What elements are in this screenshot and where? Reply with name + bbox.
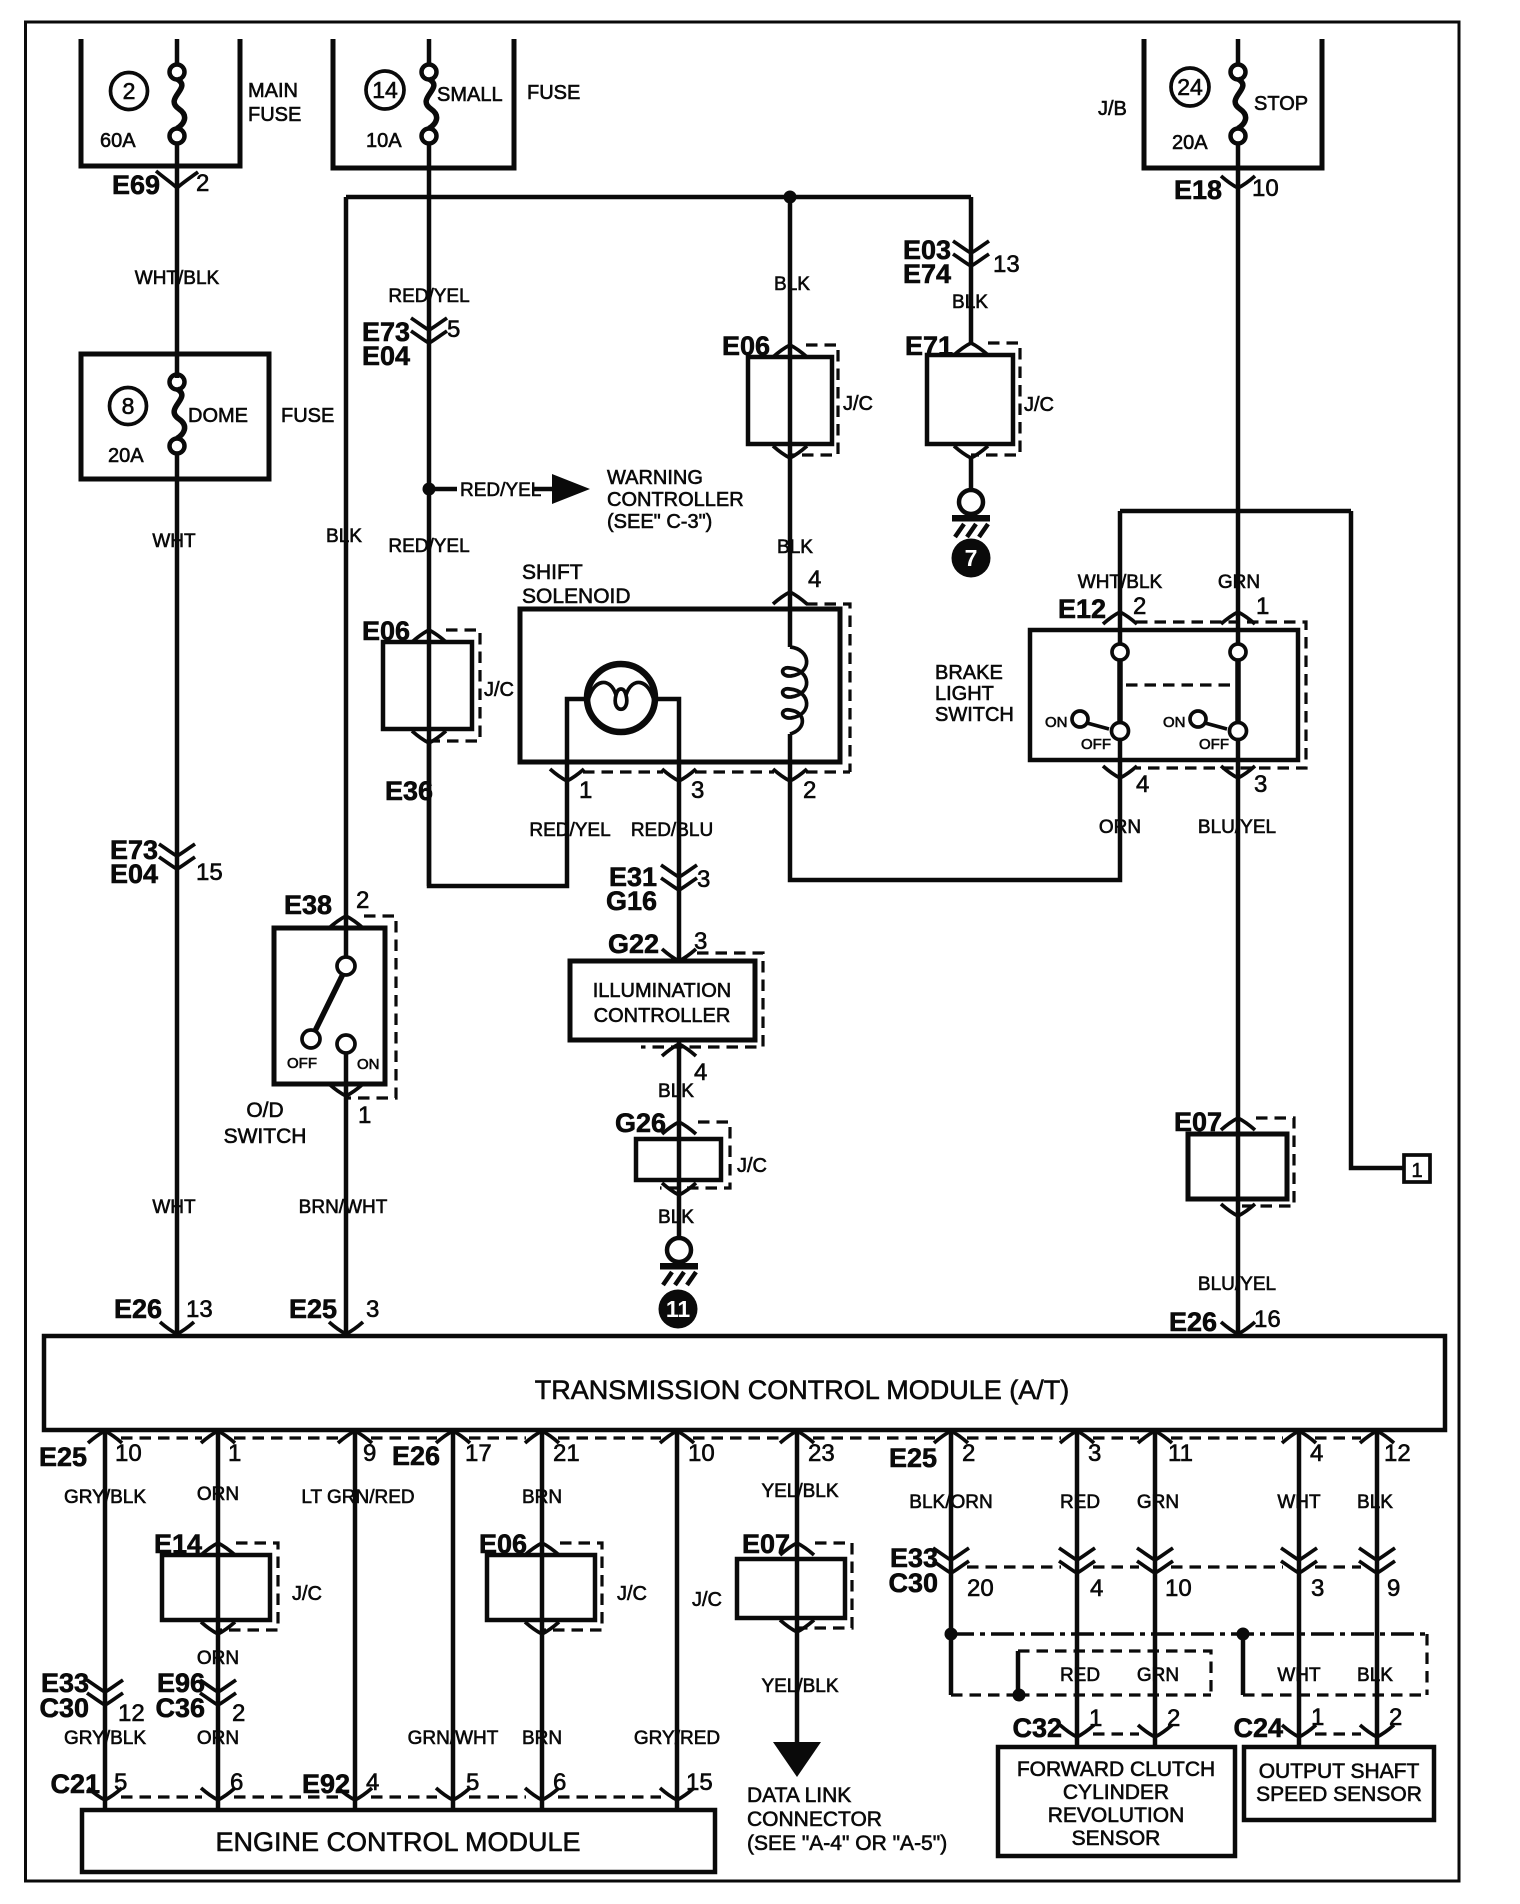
E12 interlock dashed link [1126, 683, 1232, 686]
E12 right pole top contact [1230, 644, 1246, 660]
svg-text:OUTPUT SHAFT: OUTPUT SHAFT [1259, 1760, 1420, 1783]
junction connector E14 J/C box [162, 1555, 270, 1620]
E07 bottom chevron below [780, 1620, 814, 1632]
arrow to data link connector [773, 1742, 821, 1777]
junction dot RED/YEL branch [423, 483, 436, 496]
solenoid lamp [587, 664, 655, 732]
wire pin21 to ECM [540, 1430, 545, 1810]
E12 right ON pivot [1190, 711, 1206, 727]
svg-text:SWITCH: SWITCH [935, 704, 1014, 726]
svg-text:E04: E04 [362, 341, 410, 371]
arrow to warning controller [552, 474, 590, 504]
E71 dashed connector outline [971, 343, 1020, 455]
svg-text:14: 14 [372, 77, 398, 103]
wire E25-10 to ECM [103, 1430, 108, 1810]
svg-text:BLK: BLK [952, 292, 988, 313]
svg-text:RED/YEL: RED/YEL [460, 480, 541, 501]
svg-text:7: 7 [965, 545, 978, 571]
svg-text:BRN: BRN [522, 1487, 562, 1508]
svg-text:2: 2 [1133, 593, 1146, 620]
E06 left dashed connector outline [427, 630, 480, 741]
svg-text:3: 3 [691, 777, 704, 804]
svg-text:G16: G16 [606, 886, 657, 916]
svg-text:E25: E25 [289, 1294, 337, 1324]
connector E69 chevron [156, 171, 198, 188]
connector strip dashed links [121, 1436, 1361, 1439]
svg-text:ORN: ORN [197, 1728, 239, 1749]
svg-text:WHT/BLK: WHT/BLK [135, 268, 220, 289]
svg-text:ON: ON [357, 1056, 380, 1073]
svg-text:1: 1 [1311, 1704, 1324, 1731]
svg-text:2: 2 [196, 170, 209, 197]
svg-text:3: 3 [1088, 1440, 1101, 1467]
svg-text:60A: 60A [100, 130, 136, 152]
svg-text:4: 4 [808, 566, 821, 593]
svg-text:ORN: ORN [197, 1648, 239, 1669]
svg-text:C24: C24 [1233, 1713, 1283, 1743]
svg-text:SOLENOID: SOLENOID [522, 585, 631, 608]
svg-text:1: 1 [1089, 1705, 1102, 1732]
svg-text:CONTROLLER: CONTROLLER [594, 1005, 731, 1027]
svg-text:G26: G26 [615, 1108, 666, 1138]
wire coil to E36 pin2 [788, 734, 793, 781]
wire pin23 to data link connector [795, 1430, 800, 1742]
junction dot shield right [1237, 1628, 1250, 1641]
E06 bottom dashed connector outline [542, 1543, 602, 1630]
connector E38 chevron [329, 916, 363, 928]
svg-text:J/C: J/C [737, 1155, 767, 1177]
connector G22 chevron [662, 949, 696, 961]
E12 left pole blade [1117, 660, 1123, 723]
circled 2 [111, 73, 148, 110]
O/D switch top contact [337, 957, 355, 975]
connector E36 pin4 chevron [773, 592, 807, 604]
wire pin17 to ECM [451, 1430, 456, 1810]
svg-text:E38: E38 [284, 890, 332, 920]
svg-text:C21: C21 [50, 1769, 100, 1799]
wire ORN from E12-4 to E36-2 [790, 740, 1120, 880]
svg-text:LT GRN/RED: LT GRN/RED [301, 1487, 414, 1508]
off-page connector boxed 1 [1404, 1155, 1430, 1182]
svg-text:GRN: GRN [1218, 572, 1260, 593]
svg-text:E26: E26 [392, 1441, 440, 1471]
svg-text:E25: E25 [889, 1443, 937, 1473]
svg-text:WHT: WHT [152, 531, 196, 552]
O/D switch lever [315, 974, 343, 1031]
circled 14 [366, 71, 404, 109]
svg-text:13: 13 [186, 1296, 213, 1323]
junction connector E07 J/C (bottom) chevron [780, 1543, 814, 1555]
svg-text:BRAKE: BRAKE [935, 662, 1003, 684]
svg-text:3: 3 [1254, 771, 1267, 798]
junction connector G26 J/C box [636, 1139, 721, 1180]
wire MAIN fuse to DOME fuse [175, 144, 180, 378]
in-line connector E96/C36 double chevron [200, 1680, 236, 1705]
junction connector E06 J/C (left) chevron above [412, 630, 446, 642]
svg-text:GRN: GRN [1137, 1665, 1179, 1686]
svg-text:BLK: BLK [777, 537, 813, 558]
lamp leads [567, 699, 679, 781]
junction connector E06 J/C (left) box [383, 642, 472, 729]
svg-text:5: 5 [114, 1769, 127, 1796]
svg-text:1: 1 [358, 1102, 371, 1129]
svg-text:SPEED SENSOR: SPEED SENSOR [1256, 1783, 1422, 1806]
E38 chevron below [329, 1084, 363, 1096]
E38 dashed connector outline [346, 916, 396, 1098]
svg-text:3: 3 [697, 866, 710, 893]
svg-text:WHT: WHT [1277, 1665, 1321, 1686]
wire pin9 to ECM [353, 1430, 358, 1810]
E12 right pole blade [1235, 660, 1241, 723]
wire O/D switch exit [344, 1053, 349, 1336]
E12 left pole lower contact [1112, 723, 1129, 740]
svg-text:E04: E04 [110, 859, 158, 889]
circled 8 [110, 388, 147, 425]
svg-text:E69: E69 [112, 170, 160, 200]
fuse box SMALL FUSE (housing) [333, 39, 514, 168]
wire DOME fuse down to TCM E26-13 [175, 453, 180, 1336]
wire BLK bus horizontal [346, 195, 971, 200]
wire pin12 BLK to C24 [1375, 1430, 1380, 1747]
svg-text:15: 15 [686, 1769, 713, 1796]
svg-text:4: 4 [1136, 771, 1149, 798]
in-line connector E03/E74 double chevron [953, 241, 989, 266]
svg-text:YEL/BLK: YEL/BLK [761, 1676, 838, 1697]
svg-text:1: 1 [1256, 593, 1269, 620]
svg-text:16: 16 [1254, 1306, 1281, 1333]
svg-text:9: 9 [363, 1440, 376, 1467]
svg-text:RED/YEL: RED/YEL [388, 536, 469, 557]
svg-text:(SEE" C-3"): (SEE" C-3") [607, 511, 712, 533]
svg-text:FORWARD CLUTCH: FORWARD CLUTCH [1017, 1758, 1215, 1781]
wire bus left drop to O/D switch [344, 197, 349, 957]
svg-text:E25: E25 [39, 1442, 87, 1472]
shield box around WHT/BLK pair [1241, 1634, 1246, 1695]
E06 top chevron below [773, 446, 807, 458]
svg-text:C30: C30 [888, 1568, 938, 1598]
svg-text:TRANSMISSION CONTROL MODULE (A: TRANSMISSION CONTROL MODULE (A/T) [535, 1375, 1070, 1405]
svg-text:FUSE: FUSE [248, 104, 301, 126]
svg-text:20: 20 [967, 1575, 994, 1602]
svg-text:1: 1 [1411, 1160, 1422, 1182]
svg-text:12: 12 [1384, 1440, 1411, 1467]
connector E26 pin13 into TCM [160, 1322, 194, 1334]
fuse F2 60A symbol [170, 65, 185, 144]
brake light switch box [1030, 630, 1298, 760]
svg-text:J/C: J/C [617, 1583, 647, 1605]
wire pin4 WHT to C24 [1297, 1430, 1302, 1747]
svg-text:20A: 20A [1172, 132, 1208, 154]
wire SMALL fuse down through E06 area [427, 144, 432, 886]
C21/E92 dashed links [121, 1795, 661, 1798]
svg-text:BLU/YEL: BLU/YEL [1198, 1274, 1276, 1295]
ground G7 symbol [952, 490, 990, 537]
svg-text:23: 23 [808, 1440, 835, 1467]
in-line connector E33/C30 double chevron (left) [87, 1680, 123, 1705]
svg-text:RED/YEL: RED/YEL [388, 286, 469, 307]
in-line connector E33/C30 double chevrons (right) [933, 1548, 1395, 1573]
svg-text:24: 24 [1177, 74, 1203, 100]
junction connector G26 J/C chevron [662, 1122, 696, 1134]
E14 chevron below [201, 1622, 235, 1634]
svg-text:SWITCH: SWITCH [224, 1125, 307, 1148]
svg-text:WHT/BLK: WHT/BLK [1078, 572, 1163, 593]
junction dot shield left [945, 1628, 958, 1641]
connector E18 chevron [1221, 176, 1255, 188]
svg-text:STOP: STOP [1254, 93, 1308, 115]
svg-text:GRY/BLK: GRY/BLK [64, 1728, 146, 1749]
fuse box MAIN FUSE (housing) [81, 39, 240, 166]
svg-text:ORN: ORN [197, 1484, 239, 1505]
svg-text:C32: C32 [1012, 1713, 1062, 1743]
svg-text:RED/YEL: RED/YEL [529, 820, 610, 841]
svg-text:OFF: OFF [1199, 736, 1229, 753]
E06 bottom chevron below [525, 1622, 559, 1634]
connector E25 pin3 into TCM [329, 1322, 363, 1334]
fuse F8 20A symbol [170, 375, 185, 454]
wire stub into small fuse [427, 39, 432, 65]
junction dot shield box1 [1013, 1689, 1026, 1702]
wire E06 left down and over to E36 pin1 [429, 743, 567, 886]
wire horizontal feed to brake light switch [1120, 509, 1351, 514]
G26 chevron below [662, 1183, 696, 1195]
wire stub into stop fuse [1236, 39, 1241, 65]
junction connector E14 J/C chevron [201, 1543, 235, 1555]
svg-text:GRY/BLK: GRY/BLK [64, 1487, 146, 1508]
svg-text:BRN/WHT: BRN/WHT [299, 1197, 388, 1218]
C24 dashed link [1315, 1732, 1361, 1735]
svg-text:RED/BLU: RED/BLU [631, 820, 713, 841]
svg-text:21: 21 [553, 1440, 580, 1467]
O/D switch ON contact [337, 1035, 355, 1053]
E07 dashed connector outline [1240, 1118, 1294, 1206]
connector C21/E92 chevrons into ECM [88, 1788, 694, 1800]
svg-text:E92: E92 [302, 1769, 350, 1799]
svg-text:3: 3 [366, 1296, 379, 1323]
svg-text:YEL/BLK: YEL/BLK [761, 1481, 838, 1502]
svg-text:OFF: OFF [1081, 736, 1111, 753]
wire pin1 to ECM [216, 1430, 221, 1810]
svg-text:E36: E36 [385, 776, 433, 806]
wire E36-3 down to illumination controller [677, 781, 682, 961]
svg-text:E12: E12 [1058, 594, 1106, 624]
svg-text:RED: RED [1060, 1665, 1100, 1686]
svg-text:8: 8 [122, 393, 135, 419]
svg-text:FUSE: FUSE [281, 405, 334, 427]
svg-text:10A: 10A [366, 130, 402, 152]
svg-text:13: 13 [993, 251, 1020, 278]
E12 left ON pivot [1072, 711, 1088, 727]
junction connector E07 J/C box [1188, 1134, 1287, 1199]
svg-text:J/C: J/C [692, 1589, 722, 1611]
svg-text:C36: C36 [155, 1693, 205, 1723]
svg-text:6: 6 [553, 1769, 566, 1796]
E06 left chevron below [412, 731, 446, 743]
TCM box [44, 1336, 1445, 1430]
svg-text:10: 10 [1252, 175, 1279, 202]
E36 dashed connector outline (right) [806, 604, 850, 772]
svg-text:C30: C30 [39, 1693, 89, 1723]
wire illumination controller to ground [677, 1040, 682, 1238]
wire stub into main fuse [175, 39, 180, 65]
svg-text:6: 6 [230, 1769, 243, 1796]
E71 chevron below [954, 446, 988, 458]
svg-text:E74: E74 [903, 259, 951, 289]
circled 24 [1171, 68, 1209, 106]
svg-text:WARNING: WARNING [607, 467, 703, 489]
svg-text:ON: ON [1163, 714, 1186, 731]
fuse box DOME FUSE (housing) [81, 354, 269, 479]
svg-text:5: 5 [466, 1769, 479, 1796]
svg-text:J/C: J/C [843, 393, 873, 415]
illumination controller box [570, 961, 755, 1040]
svg-text:GRY/RED: GRY/RED [634, 1728, 720, 1749]
connector strip chevrons below TCM [88, 1431, 1394, 1443]
wire E71 to ground [969, 458, 974, 490]
svg-text:4: 4 [1310, 1440, 1323, 1467]
wire feed drop to E12 pin2 [1118, 511, 1123, 643]
wire pin10 to ECM [675, 1430, 680, 1810]
svg-text:10: 10 [688, 1440, 715, 1467]
svg-text:E07: E07 [742, 1529, 790, 1559]
svg-text:ENGINE CONTROL MODULE: ENGINE CONTROL MODULE [215, 1827, 580, 1857]
shield drain dash-dot line [951, 1632, 1427, 1636]
svg-text:REVOLUTION: REVOLUTION [1048, 1804, 1185, 1827]
wire E12 top contact stub right [1236, 630, 1241, 643]
svg-text:BLK: BLK [774, 274, 810, 295]
G22 chevron below box [662, 1044, 696, 1056]
svg-text:RED: RED [1060, 1492, 1100, 1513]
svg-text:G22: G22 [608, 929, 659, 959]
C32 dashed link [1093, 1732, 1139, 1735]
svg-text:1: 1 [579, 777, 592, 804]
junction connector E06 J/C (top) box [748, 357, 832, 444]
ground id circle 7 [952, 539, 991, 578]
junction connector E71 J/C chevron [954, 343, 988, 355]
svg-text:1: 1 [228, 1440, 241, 1467]
svg-text:O/D: O/D [246, 1099, 283, 1122]
svg-text:CONNECTOR: CONNECTOR [747, 1808, 882, 1831]
svg-text:2: 2 [962, 1440, 975, 1467]
connector E36 chevrons pins 1,3,2 [550, 769, 807, 781]
svg-text:SHIFT: SHIFT [522, 561, 583, 584]
svg-text:SMALL: SMALL [437, 84, 503, 106]
wire BLU/YEL from E12-3 down to TCM E26-16 [1236, 740, 1241, 1336]
G26 dashed connector outline [660, 1122, 730, 1188]
svg-text:2: 2 [356, 887, 369, 914]
svg-text:J/C: J/C [484, 679, 514, 701]
shield box around RED/GRN pair [1016, 1651, 1021, 1695]
in-line connector E31/G16 double chevron [661, 865, 697, 890]
E07 chevron below [1221, 1204, 1255, 1216]
shift solenoid box [520, 609, 840, 762]
svg-text:20A: 20A [108, 445, 144, 467]
connector E12 chevrons above [1103, 612, 1255, 624]
connector E12 chevrons below [1103, 766, 1255, 778]
svg-text:10: 10 [1165, 1575, 1192, 1602]
in-line connector E73/E04 pin5 double chevron [411, 318, 447, 343]
E07 bottom dashed connector outline [797, 1543, 852, 1628]
svg-text:MAIN: MAIN [248, 80, 298, 102]
svg-text:4: 4 [694, 1059, 707, 1086]
svg-text:BRN: BRN [522, 1728, 562, 1749]
wire branch to warning controller [435, 487, 554, 492]
svg-text:BLK: BLK [658, 1081, 694, 1102]
svg-text:E18: E18 [1174, 175, 1222, 205]
ground G11 symbol [660, 1238, 698, 1285]
svg-text:GRN: GRN [1137, 1492, 1179, 1513]
wire off-page feed vertical [1351, 511, 1404, 1168]
E12 left pole top contact [1112, 644, 1128, 660]
svg-text:2: 2 [123, 78, 136, 104]
wire pin11 GRN to C32 [1153, 1430, 1158, 1747]
connector E26 pin16 into TCM [1221, 1322, 1255, 1334]
svg-text:E26: E26 [1169, 1307, 1217, 1337]
in-line connector E73/E04 pin15 double chevron [159, 844, 195, 869]
junction connector E07 J/C chevron [1221, 1118, 1255, 1130]
ECM box [82, 1810, 715, 1872]
wire bus drop to E06 top J/C and solenoid coil [788, 197, 793, 647]
svg-text:17: 17 [465, 1440, 492, 1467]
svg-text:(SEE "A-4" OR "A-5"): (SEE "A-4" OR "A-5") [747, 1832, 947, 1855]
svg-text:15: 15 [196, 859, 223, 886]
E36 dashed strip [583, 770, 774, 773]
lamp filament [588, 682, 654, 709]
wire pin3 RED to C32 [1075, 1430, 1080, 1747]
svg-text:DOME: DOME [188, 405, 248, 427]
connector C32 chevrons [1060, 1725, 1172, 1737]
wire STOP fuse down to brake light switch pin1 [1236, 144, 1241, 630]
svg-text:3: 3 [1311, 1575, 1324, 1602]
svg-text:J/C: J/C [292, 1583, 322, 1605]
svg-text:11: 11 [1168, 1440, 1193, 1467]
fuse F14 10A symbol [422, 65, 437, 144]
svg-text:5: 5 [447, 316, 460, 343]
E12 dashed connector outline [1136, 622, 1306, 768]
output shaft speed sensor box [1244, 1747, 1434, 1820]
E14 dashed connector outline [218, 1543, 278, 1630]
svg-text:3: 3 [694, 928, 707, 955]
fuse box STOP (housing) [1144, 39, 1322, 168]
svg-text:4: 4 [366, 1769, 379, 1796]
junction connector E06 J/C (top) chevron [773, 345, 807, 357]
solenoid coil [783, 647, 807, 734]
E06 top dashed connector outline [790, 345, 838, 455]
svg-text:2: 2 [1389, 1704, 1402, 1731]
svg-text:10: 10 [115, 1440, 142, 1467]
E12 right pole lower contact [1230, 723, 1247, 740]
svg-text:OFF: OFF [287, 1055, 317, 1072]
svg-text:2: 2 [1167, 1705, 1180, 1732]
svg-text:BLK: BLK [658, 1207, 694, 1228]
O/D switch box [274, 928, 385, 1084]
svg-text:GRN/WHT: GRN/WHT [408, 1728, 499, 1749]
wire bus right drop to E03/E74 [969, 197, 974, 343]
junction connector E06 J/C (bottom) box [487, 1555, 595, 1620]
junction connector E06 J/C (bottom) chevron [525, 1543, 559, 1555]
fuse F24 20A symbol [1231, 65, 1246, 144]
illumination controller dashed connector outline [641, 953, 763, 1047]
forward clutch cylinder revolution sensor box [998, 1747, 1235, 1856]
junction connector E71 J/C box [927, 355, 1013, 444]
svg-text:CONTROLLER: CONTROLLER [607, 489, 744, 511]
svg-text:J/C: J/C [1024, 394, 1054, 416]
O/D switch OFF contact [302, 1030, 320, 1048]
svg-text:9: 9 [1387, 1575, 1400, 1602]
svg-text:SENSOR: SENSOR [1072, 1827, 1161, 1850]
svg-text:2: 2 [232, 1700, 245, 1727]
svg-text:CYLINDER: CYLINDER [1063, 1781, 1169, 1804]
